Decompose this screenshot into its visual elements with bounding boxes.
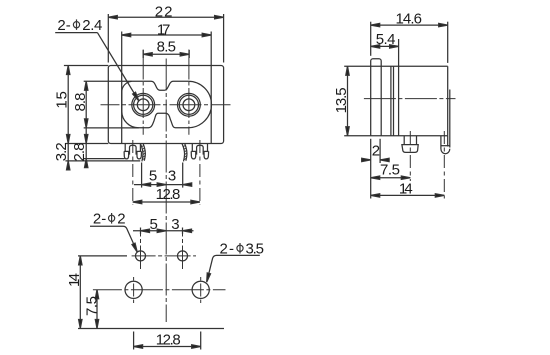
peg shoulder lines <box>191 150 197 152</box>
right terminal pin (thin curved strip with hatching) <box>182 144 185 162</box>
dim 17 <box>122 34 212 36</box>
lug center dash line <box>443 131 445 199</box>
label 2-phi3.5 underline and leader <box>207 255 260 281</box>
svg-text:2-: 2- <box>220 241 235 258</box>
svg-text:2.8: 2.8 <box>71 143 88 162</box>
lug strip inner edge below body <box>447 136 449 147</box>
svg-text:14.6: 14.6 <box>395 10 422 27</box>
internal verticals <box>390 66 392 136</box>
svg-text:12.8: 12.8 <box>156 332 181 349</box>
svg-text:3.5: 3.5 <box>246 241 265 258</box>
dim 7.5 <box>371 177 411 179</box>
label 2-phi2 underline and leader <box>90 226 137 251</box>
dim 5 / 3 bottom view <box>140 228 142 235</box>
dim 12.8 below front view <box>132 140 134 205</box>
peg central snap arch <box>130 145 137 154</box>
label 2-phi2.4 leader <box>55 32 97 34</box>
svg-text:7.5: 7.5 <box>84 296 101 316</box>
svg-text:2.4: 2.4 <box>82 17 102 34</box>
svg-text:12.8: 12.8 <box>156 186 181 203</box>
svg-text:17: 17 <box>157 21 171 38</box>
hole vertical center line left <box>142 50 144 135</box>
svg-text:8.8: 8.8 <box>72 93 89 112</box>
dim 5.4 <box>398 39 400 66</box>
big hole right <box>192 281 209 298</box>
body outline <box>108 66 223 144</box>
phi symbol of label 2-phi3.5 <box>237 243 243 254</box>
dim 22 <box>107 14 109 63</box>
inner vertical left (17 width edge + extension) <box>121 32 123 144</box>
svg-text:2-: 2- <box>93 211 106 228</box>
left hole circles <box>137 99 149 111</box>
svg-text:15: 15 <box>53 91 70 109</box>
view vertical center line (continues to bottom view) <box>165 59 167 323</box>
body top edge with 13.5 ext <box>344 65 448 67</box>
peg central snap arch <box>197 145 204 154</box>
svg-text:5: 5 <box>150 216 158 233</box>
svg-text:5: 5 <box>149 167 157 184</box>
bottom reference line <box>78 328 224 330</box>
svg-text:3.2: 3.2 <box>53 142 70 161</box>
inner vertical right (17 width edge + extension) <box>210 32 212 144</box>
small hole left <box>136 251 146 261</box>
dim 14.6 <box>370 22 372 56</box>
svg-text:3: 3 <box>171 216 179 233</box>
svg-text:2-: 2- <box>57 17 70 34</box>
svg-text:13.5: 13.5 <box>333 87 350 113</box>
dim 12.8 bottom view <box>133 332 135 350</box>
dim 14 <box>371 194 445 196</box>
left peg side view <box>403 136 405 145</box>
dim 5 / 3 below front view <box>141 163 143 188</box>
svg-text:22: 22 <box>155 4 173 21</box>
peg bullet tips <box>191 151 196 159</box>
dim 14 bottom view <box>78 255 127 257</box>
peg shoulder lines <box>124 150 130 152</box>
svg-text:8.5: 8.5 <box>157 39 176 56</box>
hole vertical center line right <box>188 50 190 135</box>
left dims: 8.8 / 2.8 on x=86.2 <box>84 80 132 82</box>
svg-text:7.5: 7.5 <box>380 162 400 179</box>
phi symbol of label 2-phi2.4 <box>73 19 79 30</box>
dim 7.5 bottom view <box>96 290 98 329</box>
peanut cutout outline <box>122 81 212 128</box>
peg at x=132.8: neck outer lines <box>124 144 126 152</box>
left terminal pin (thin curved strip with hatching) <box>140 144 143 162</box>
side center line <box>364 98 456 100</box>
center line horizontal through holes <box>101 104 231 106</box>
big hole left <box>125 281 142 298</box>
peg at x=199.9: neck outer lines <box>191 144 193 152</box>
phi symbol of label 2-phi2 <box>109 213 115 224</box>
right hole circles <box>183 99 195 111</box>
dim 13.5 <box>347 66 349 136</box>
svg-text:14: 14 <box>399 181 413 198</box>
svg-text:2: 2 <box>372 143 380 160</box>
svg-text:3: 3 <box>168 167 176 184</box>
flange column <box>371 59 382 136</box>
svg-text:14: 14 <box>66 273 83 287</box>
peg bullet tips <box>124 151 129 159</box>
pin tip extension lines <box>84 158 125 160</box>
small holes horizontal center line <box>132 255 196 257</box>
small hole right <box>178 251 188 261</box>
dim 2 <box>370 139 372 199</box>
right lug bullet below body <box>441 136 450 154</box>
body right edge <box>447 66 449 136</box>
big holes horizontal center line (with 7.5 ext) <box>93 289 226 291</box>
right lug strip <box>449 90 451 148</box>
small hole vertical center lines <box>140 228 142 270</box>
big hole vertical center lines <box>133 277 135 303</box>
svg-text:2: 2 <box>117 211 125 228</box>
dim 8.5 <box>142 50 144 58</box>
body bottom edge with 13.5 ext <box>344 135 448 137</box>
peg center dash line <box>409 131 411 181</box>
left dims: 15 / 3.2 on x=68.2 <box>64 65 108 67</box>
svg-text:5.4: 5.4 <box>376 31 396 48</box>
